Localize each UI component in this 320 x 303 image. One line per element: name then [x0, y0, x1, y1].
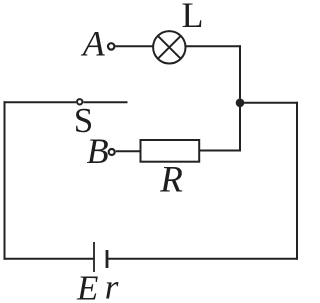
- wire: [107, 258, 297, 260]
- wire: [116, 45, 153, 47]
- lamp L: [153, 31, 185, 63]
- node B: [109, 149, 115, 155]
- wire: [116, 150, 141, 152]
- wire: [199, 150, 240, 152]
- node A: [108, 43, 114, 49]
- wire: [296, 102, 298, 260]
- wire: [186, 45, 241, 47]
- svg-text:L: L: [182, 0, 204, 35]
- wire: [4, 258, 95, 260]
- svg-text:R: R: [159, 160, 183, 201]
- node junction: [236, 99, 245, 108]
- resistor R: [141, 140, 200, 162]
- svg-text:A: A: [81, 24, 106, 64]
- svg-text:r: r: [105, 268, 119, 303]
- wire: [239, 45, 241, 151]
- switch S: [4, 99, 128, 104]
- svg-text:E: E: [76, 269, 98, 303]
- svg-text:B: B: [87, 131, 109, 171]
- wire: [240, 102, 298, 104]
- battery E r: [94, 242, 107, 272]
- wire: [4, 101, 6, 260]
